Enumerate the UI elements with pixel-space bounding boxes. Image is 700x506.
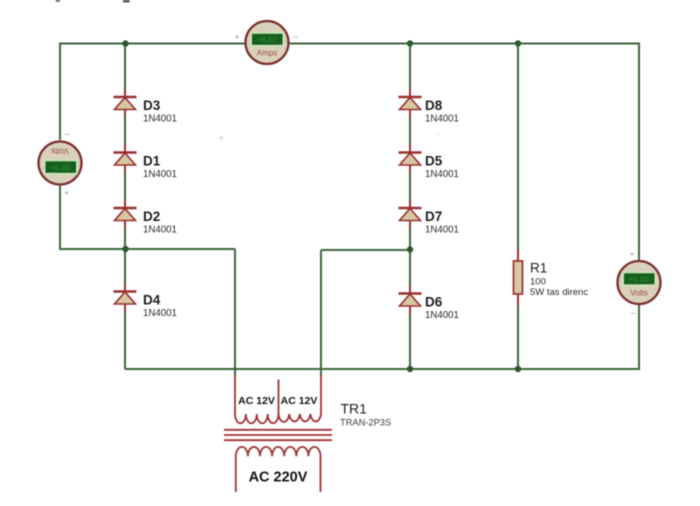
diode D6 — [399, 286, 422, 314]
svg-text:5W tas direnc: 5W tas direnc — [530, 287, 588, 298]
transformer TR1 primary winding (AC 220V) — [236, 447, 321, 456]
svg-text:1N4001: 1N4001 — [143, 114, 177, 125]
svg-text:D8: D8 — [425, 98, 443, 113]
node junction bottom x=410 — [407, 366, 413, 372]
svg-text:+: + — [630, 249, 635, 259]
svg-text:1N4001: 1N4001 — [425, 114, 459, 125]
svg-text:+0.00: +0.00 — [50, 165, 70, 172]
transformer TR1 core — [224, 430, 332, 440]
transformer TR1 secondary pin left — [234, 375, 236, 415]
wire x=235 vertical to transformer — [234, 249, 236, 377]
transformer TR1 secondary winding right (AC 12V) — [279, 414, 322, 422]
wire top-right segment — [288, 43, 639, 45]
svg-text:AC 220V: AC 220V — [249, 470, 308, 486]
wire left vertical upper — [59, 43, 61, 141]
svg-text:1N4001: 1N4001 — [425, 225, 459, 236]
svg-text:1N4001: 1N4001 — [143, 308, 177, 319]
diode D4 — [114, 284, 137, 312]
svg-text:D2: D2 — [143, 209, 160, 224]
svg-text:D5: D5 — [425, 154, 443, 169]
wire y=250 right segment — [321, 249, 410, 251]
svg-text:1N4001: 1N4001 — [143, 169, 177, 180]
top text remnant 2 — [123, 0, 130, 2]
transformer TR1 secondary pin right — [320, 375, 322, 415]
faint grid dot left — [219, 137, 223, 140]
svg-text:D7: D7 — [425, 209, 442, 224]
node junction right y=250 — [407, 246, 413, 252]
wire right vertical lower — [638, 305, 640, 371]
wire right diode chain lower — [409, 249, 411, 369]
diode D1 — [114, 145, 137, 173]
svg-text:+: + — [64, 188, 69, 198]
svg-text:Volts: Volts — [630, 288, 648, 297]
wire left diode chain lower — [124, 249, 126, 369]
svg-text:D4: D4 — [143, 293, 161, 308]
svg-text:1N4001: 1N4001 — [425, 169, 459, 180]
node junction top x=410 — [407, 40, 413, 46]
svg-text:Amps: Amps — [257, 49, 278, 58]
wire left horizontal y=249 — [59, 248, 235, 250]
svg-text:–: – — [293, 32, 298, 42]
svg-text:D6: D6 — [425, 295, 443, 310]
node junction top x=125 — [122, 40, 128, 46]
wire left diode chain upper — [124, 44, 126, 251]
svg-text:1N4001: 1N4001 — [425, 310, 459, 321]
wire left vertical lower — [59, 184, 61, 250]
svg-text:D3: D3 — [143, 98, 161, 113]
node junction top x=518 — [515, 40, 521, 46]
wire top-left segment — [60, 43, 246, 45]
resistor R1 — [514, 250, 523, 305]
svg-text:–: – — [631, 308, 636, 318]
transformer TR1 secondary winding left (AC 12V) — [235, 414, 278, 423]
top text remnant 1 — [56, 0, 61, 2]
wire x=321 vertical to transformer — [320, 250, 322, 377]
node junction bottom x=518 — [515, 366, 521, 372]
faint grid dot right — [436, 133, 439, 135]
svg-text:AC 12V: AC 12V — [281, 395, 318, 407]
diode D3 — [114, 89, 137, 117]
ammeter Amps — [246, 21, 289, 64]
diode D2 — [114, 200, 137, 228]
svg-text:–: – — [65, 129, 70, 139]
transformer TR1 primary pin right — [320, 456, 322, 492]
svg-text:Volts: Volts — [51, 146, 69, 155]
svg-text:100: 100 — [530, 277, 546, 288]
svg-text:TR1: TR1 — [341, 401, 368, 417]
svg-text:+0.00: +0.00 — [629, 277, 649, 284]
wire R1 chain upper — [517, 44, 519, 253]
wire R1 chain lower — [517, 304, 519, 369]
svg-text:+0.00: +0.00 — [257, 37, 277, 44]
svg-text:AC 12V: AC 12V — [238, 395, 275, 407]
node junction left y=249 — [122, 246, 128, 252]
svg-text:TRAN-2P3S: TRAN-2P3S — [340, 418, 391, 428]
diode D5 — [399, 145, 422, 173]
voltmeter left (Volts) — [39, 142, 82, 185]
transformer TR1 primary pin left — [235, 456, 237, 492]
wire right diode chain upper — [409, 44, 411, 251]
diode D7 — [399, 200, 422, 228]
svg-text:D1: D1 — [143, 154, 161, 169]
voltmeter right (Volts) — [618, 261, 661, 304]
diode D8 — [399, 89, 422, 117]
transformer TR1 secondary pin middle — [278, 380, 280, 415]
svg-text:+: + — [235, 32, 240, 42]
svg-text:1N4001: 1N4001 — [143, 225, 177, 236]
svg-text:R1: R1 — [530, 261, 547, 276]
wire right vertical upper — [638, 43, 640, 262]
wire bottom horizontal y=369 — [125, 368, 640, 370]
